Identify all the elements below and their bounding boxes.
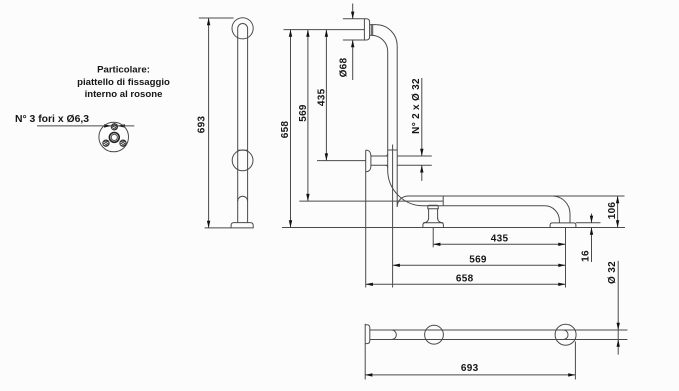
right base plate bbox=[550, 223, 576, 228]
dim 68 dimension line lower bbox=[352, 40, 354, 80]
dim 106 dimension line bbox=[617, 196, 619, 228]
chord at mid flange top bbox=[388, 149, 398, 151]
top wall flange face line bbox=[363, 19, 365, 40]
dim O32 arrows bbox=[617, 323, 620, 347]
top wall flange body bbox=[343, 19, 370, 40]
dim 435 arrows bbox=[325, 30, 328, 161]
dim 435 extension line bbox=[317, 160, 366, 162]
svg-text:Particolare:: Particolare: bbox=[97, 65, 150, 76]
bottom bend inner curve bbox=[397, 196, 408, 207]
dim 569 bottom arrows bbox=[393, 264, 566, 267]
dim N2x32 arrow down bbox=[420, 149, 423, 156]
stub fillet top bbox=[386, 154, 388, 156]
bottom bend outer curve bbox=[388, 170, 424, 206]
svg-text:Ø 32: Ø 32 bbox=[607, 261, 618, 284]
dim 693 right extension bbox=[574, 342, 576, 380]
end rosette circle bbox=[555, 324, 576, 345]
svg-text:106: 106 bbox=[607, 202, 618, 220]
svg-text:569: 569 bbox=[298, 104, 309, 122]
detail plate outer circle bbox=[99, 122, 129, 152]
dim 435 bottom arrows bbox=[433, 243, 565, 246]
svg-text:interno al rosone: interno al rosone bbox=[85, 89, 163, 100]
mid flange wall line + extension to bottom dim bbox=[365, 150, 367, 287]
dim 693 arrow up bbox=[207, 18, 210, 25]
horizontal tube lines bbox=[408, 196, 552, 206]
support base centre extension bbox=[432, 228, 434, 248]
dim 658 bottom arrows bbox=[366, 283, 566, 286]
wall flange circle (top rosone) bbox=[232, 18, 253, 39]
svg-text:N° 2 x Ø 32: N° 2 x Ø 32 bbox=[411, 78, 422, 134]
tube axis extension line (to bottom dims) bbox=[392, 145, 394, 288]
mid flange cap (D profile) bbox=[366, 150, 371, 172]
right base centre extension bbox=[565, 228, 567, 288]
dim 569 bottom dimension line bbox=[393, 264, 566, 266]
dim N2x32 dimension line lower bbox=[421, 165, 423, 181]
dim 435 vertical dimension line bbox=[325, 30, 327, 161]
leader line to hole bbox=[37, 125, 134, 127]
dim N2x32 arrow up bbox=[420, 165, 423, 172]
svg-text:Ø68: Ø68 bbox=[339, 57, 350, 77]
dim 68 arrow down bbox=[351, 12, 354, 19]
detail hole lower-right (hatched) bbox=[120, 140, 127, 146]
tube lines bbox=[370, 330, 628, 340]
wall line + extension down bbox=[364, 324, 366, 380]
right end bend inner curve bbox=[545, 206, 560, 223]
dim 693 arrows bbox=[365, 373, 575, 376]
detail hole lower-left (hatched) bbox=[103, 140, 110, 146]
top bend inner curve bbox=[372, 35, 388, 51]
tube stub from flange bbox=[370, 25, 377, 36]
leader arrow right-pointing bbox=[104, 124, 111, 127]
svg-text:435: 435 bbox=[316, 88, 327, 106]
dim 569 extension line (tube axis) bbox=[299, 200, 443, 202]
support post flare right bbox=[438, 218, 443, 223]
dim 658 bottom dimension line bbox=[366, 283, 566, 285]
dim 693 bottom extension line bbox=[205, 227, 232, 229]
detail hole top (hatched) bbox=[111, 124, 117, 130]
inner dome near flange bbox=[392, 330, 397, 340]
dim O32 dimension line bbox=[617, 261, 619, 355]
detail center ring inner bbox=[111, 134, 117, 140]
support post collar bbox=[428, 205, 439, 209]
dim 693 top extension line bbox=[199, 17, 234, 19]
right end bend outer curve bbox=[552, 196, 570, 223]
vertical tube lines bbox=[388, 46, 398, 207]
dim 106 arrows bbox=[616, 196, 619, 228]
svg-text:693: 693 bbox=[197, 116, 208, 134]
top bend outer curve bbox=[376, 25, 397, 46]
svg-text:658: 658 bbox=[456, 274, 474, 285]
tube body (vertical lines) bbox=[238, 29, 248, 223]
mid support rosette circle bbox=[232, 150, 253, 171]
support post flare left bbox=[423, 218, 428, 223]
tube end dome bbox=[563, 330, 568, 340]
dim 569 arrows bbox=[306, 30, 309, 202]
stub fillet bottom bbox=[386, 165, 388, 167]
tube cap arc (top of tube) bbox=[238, 24, 248, 29]
floor line bbox=[282, 227, 625, 229]
dim 435 bottom dimension line bbox=[433, 243, 565, 245]
inner dome near tube end bbox=[238, 196, 248, 201]
dim 693 dimension line bbox=[208, 18, 210, 228]
svg-text:N° 3 fori x Ø6,3: N° 3 fori x Ø6,3 bbox=[15, 114, 89, 125]
dim 658 vertical dimension line bbox=[290, 30, 292, 228]
top extension line bbox=[284, 29, 365, 31]
dim 658 arrows bbox=[289, 30, 292, 228]
support post lines bbox=[429, 209, 438, 220]
svg-text:658: 658 bbox=[280, 121, 291, 139]
svg-text:435: 435 bbox=[491, 234, 509, 245]
tube joint line bbox=[442, 196, 444, 206]
dim 106 extension line bbox=[552, 195, 624, 197]
dim 16 upper line + arrow bbox=[591, 214, 593, 223]
svg-text:693: 693 bbox=[461, 363, 479, 374]
svg-text:569: 569 bbox=[469, 255, 487, 266]
floor base plate bbox=[231, 223, 253, 228]
wall flange cap bbox=[365, 325, 370, 344]
dim 569 vertical dimension line bbox=[307, 30, 309, 202]
dim 693 arrow down bbox=[207, 221, 210, 228]
dim 16 extension line (base top) bbox=[576, 222, 601, 224]
stub joint lines bbox=[371, 25, 372, 36]
dim 68 arrow up bbox=[351, 40, 354, 47]
mid rosette circle bbox=[425, 325, 444, 344]
dim 693 dimension line bbox=[365, 374, 575, 376]
svg-text:16: 16 bbox=[581, 250, 592, 262]
dim 16 lower line + arrow bbox=[591, 228, 593, 263]
svg-text:piattello di fissaggio: piattello di fissaggio bbox=[77, 77, 170, 88]
dim N2x32 extension lines bbox=[397, 156, 432, 165]
mid flange stub tube bbox=[371, 156, 388, 165]
leader arrow left-pointing bbox=[118, 124, 125, 127]
dim 68 dimension line upper bbox=[352, 4, 354, 19]
support base plate bbox=[423, 223, 444, 228]
detail center ring outer bbox=[109, 133, 119, 143]
dim N2x32 dimension line upper bbox=[421, 78, 423, 156]
chord line at mid rosette top bbox=[238, 149, 248, 151]
